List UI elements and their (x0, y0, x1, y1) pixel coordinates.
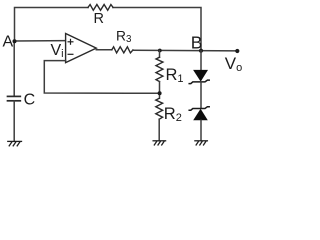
svg-text:A: A (3, 34, 14, 51)
svg-text:B: B (191, 32, 203, 52)
node junction R3/R1 (158, 49, 162, 53)
ground (below zeners) (195, 141, 208, 145)
resistor R1 (156, 57, 163, 81)
wire top rail left segment (15, 8, 89, 42)
svg-text:Vi: Vi (51, 42, 64, 60)
node A (13, 39, 17, 43)
wire R3 to output terminal (133, 49, 237, 52)
svg-text:C: C (24, 92, 36, 109)
wire node A to op-amp + input (15, 40, 66, 42)
svg-text:R2: R2 (164, 105, 182, 124)
wire op-amp output (96, 49, 112, 51)
wire op-amp inverting input feedback (44, 61, 159, 94)
output terminal dot (235, 49, 239, 53)
wire node B down to zener D1 (200, 51, 202, 70)
wire between zeners (200, 82, 202, 108)
wire R2 to ground (158, 119, 160, 140)
svg-text:R1: R1 (166, 66, 184, 85)
resistor R (88, 5, 113, 11)
zener diode D2 (189, 107, 209, 121)
wire zener D2 to ground (200, 120, 202, 140)
ground (below R2) (153, 141, 166, 145)
wire capacitor to ground (13, 101, 15, 141)
ground (below C) (8, 141, 22, 145)
wire R1 top stub (159, 51, 161, 58)
svg-text:R: R (94, 11, 104, 27)
wire top rail right segment (113, 8, 201, 51)
svg-text:Vo: Vo (225, 54, 242, 74)
wire node A down to capacitor (13, 41, 15, 96)
svg-text:R3: R3 (116, 29, 132, 46)
resistor R2 (156, 98, 163, 119)
wire R1 bottom to junction (159, 82, 161, 99)
node B (199, 49, 203, 53)
capacitor C (8, 96, 21, 100)
node junction R1/R2 (158, 91, 162, 95)
resistor R3 (112, 47, 133, 53)
op-amp U1 (66, 34, 97, 63)
zener diode D1 (189, 70, 209, 84)
